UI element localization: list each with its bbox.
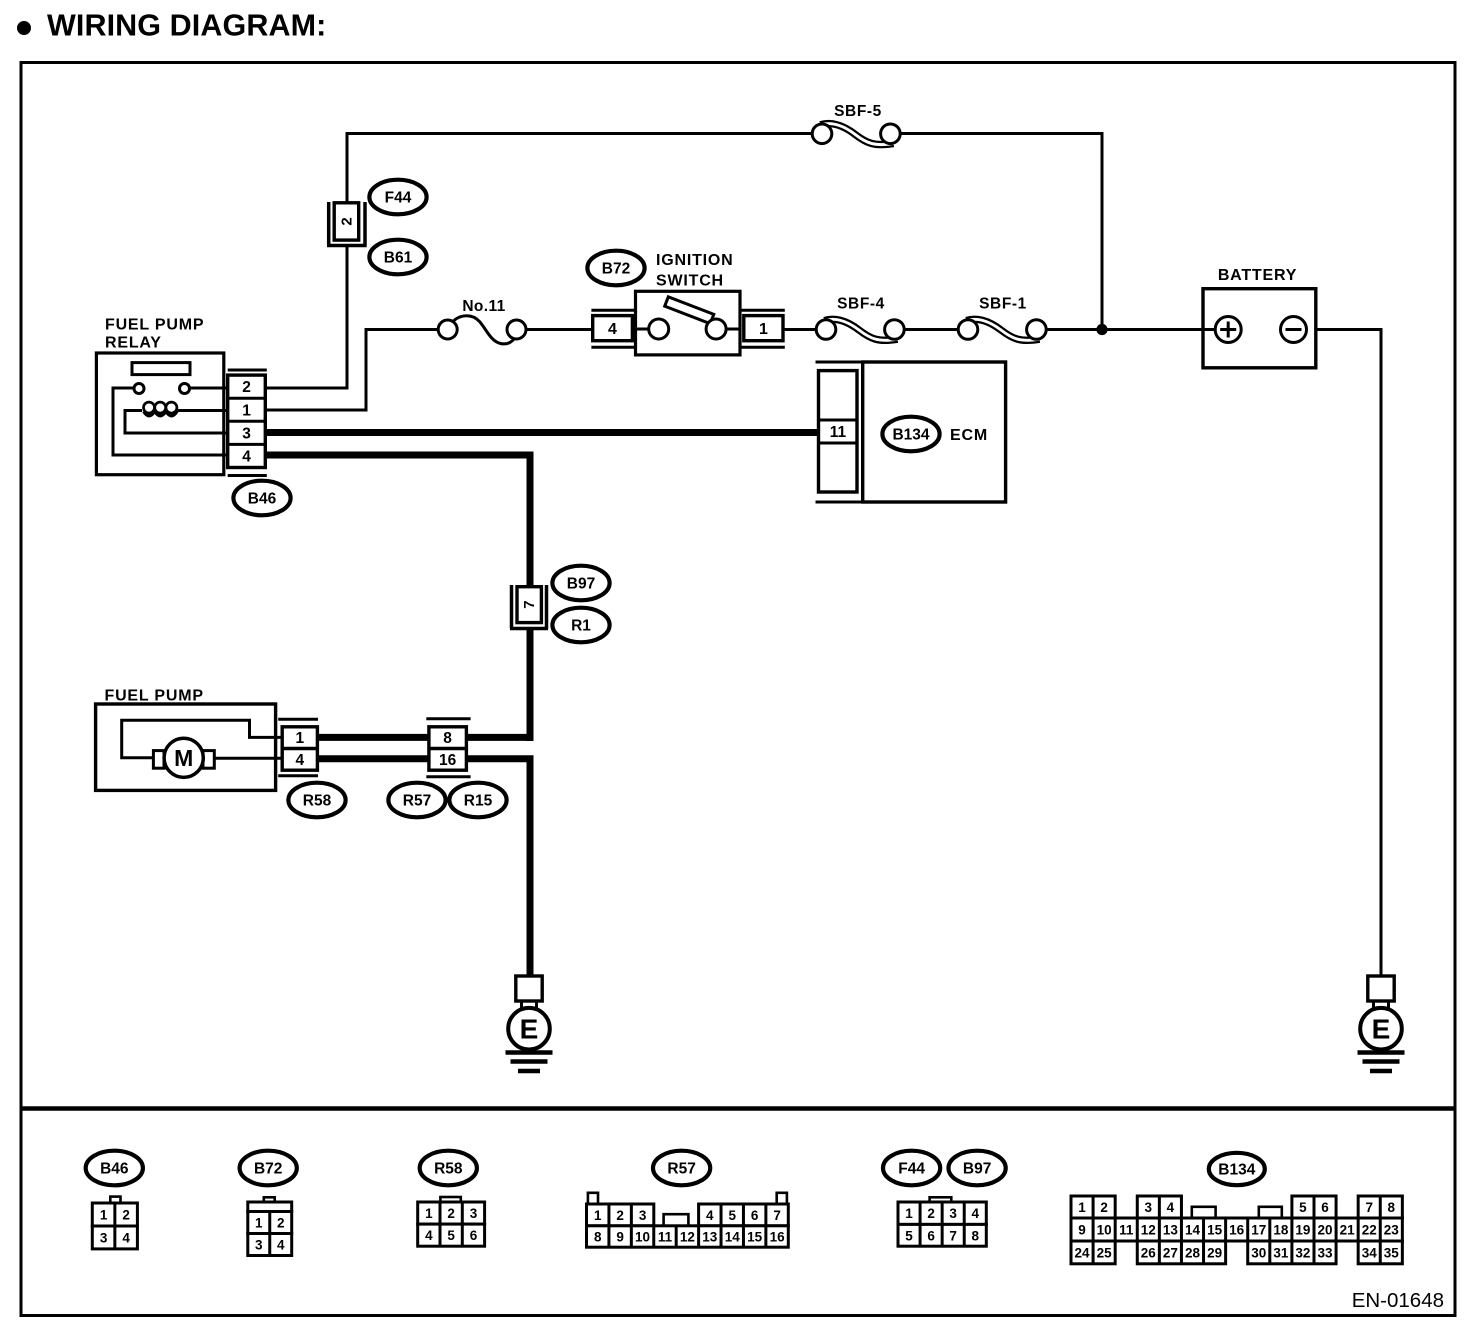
svg-text:R58: R58 bbox=[434, 1160, 463, 1177]
fuse SBF-5 bbox=[812, 124, 900, 145]
svg-text:15: 15 bbox=[747, 1230, 763, 1245]
svg-text:34: 34 bbox=[1362, 1245, 1378, 1260]
svg-text:WIRING DIAGRAM:: WIRING DIAGRAM: bbox=[47, 8, 326, 42]
svg-text:ECM: ECM bbox=[950, 427, 988, 444]
wire connector B97/R1 down to joint with pin 8 wire (thick) bbox=[527, 628, 534, 741]
svg-text:3: 3 bbox=[1145, 1200, 1153, 1215]
relay coil bbox=[125, 402, 228, 433]
svg-text:12: 12 bbox=[1141, 1223, 1156, 1238]
relay contact wiring bbox=[113, 388, 228, 455]
svg-text:4: 4 bbox=[425, 1228, 433, 1243]
svg-text:3: 3 bbox=[949, 1206, 957, 1221]
connector R57/R15 pins 8,16 bbox=[426, 719, 470, 777]
battery box bbox=[1203, 289, 1316, 368]
ignition switch B72 box bbox=[636, 291, 741, 355]
relay armature bar bbox=[132, 363, 190, 375]
svg-text:SBF-4: SBF-4 bbox=[837, 296, 885, 313]
connector label oval B134b bbox=[1209, 1153, 1265, 1185]
svg-text:21: 21 bbox=[1340, 1223, 1356, 1238]
svg-text:4: 4 bbox=[277, 1238, 285, 1253]
svg-text:B134: B134 bbox=[892, 426, 929, 443]
svg-text:31: 31 bbox=[1273, 1245, 1289, 1260]
wire SBF-1 to battery positive bbox=[1044, 328, 1218, 331]
svg-text:13: 13 bbox=[702, 1230, 718, 1245]
connector label oval B97b bbox=[949, 1151, 1006, 1186]
fuel pump internal wiring bbox=[122, 720, 284, 758]
svg-text:18: 18 bbox=[1273, 1223, 1289, 1238]
connector B46 pin column (pins 2,1,3,4) bbox=[228, 370, 267, 476]
ECM pin column with pin 11 bbox=[819, 371, 858, 492]
wire F44 connector to SBF-5 fuse (top run) bbox=[347, 134, 818, 204]
relay contact circles bbox=[134, 384, 190, 394]
svg-text:5: 5 bbox=[1299, 1200, 1307, 1215]
svg-text:30: 30 bbox=[1251, 1245, 1266, 1260]
svg-text:8: 8 bbox=[1388, 1200, 1396, 1215]
svg-text:1: 1 bbox=[905, 1206, 913, 1221]
fuse SBF-4 bbox=[816, 319, 904, 340]
connector label oval R57b bbox=[653, 1151, 710, 1186]
svg-text:4: 4 bbox=[972, 1206, 980, 1221]
svg-text:FUEL PUMP: FUEL PUMP bbox=[105, 688, 204, 705]
svg-text:7: 7 bbox=[949, 1228, 957, 1243]
svg-text:10: 10 bbox=[1097, 1223, 1112, 1238]
battery positive terminal bbox=[1215, 317, 1241, 343]
fuse SBF-1 bbox=[958, 319, 1046, 340]
svg-text:2: 2 bbox=[616, 1208, 624, 1223]
svg-text:R1: R1 bbox=[571, 617, 591, 634]
connector label oval B97 bbox=[552, 566, 609, 601]
connector label oval B46b bbox=[86, 1151, 143, 1186]
fuse No.11 bbox=[438, 316, 526, 344]
svg-text:5: 5 bbox=[728, 1208, 736, 1223]
connector label oval R58b bbox=[420, 1151, 477, 1186]
svg-text:2: 2 bbox=[338, 217, 355, 225]
connector label oval B72 bbox=[587, 251, 644, 286]
battery negative terminal bbox=[1281, 317, 1307, 343]
connector label oval B46 bbox=[233, 481, 290, 516]
svg-text:B134: B134 bbox=[1218, 1161, 1255, 1178]
svg-text:28: 28 bbox=[1185, 1245, 1201, 1260]
svg-text:1: 1 bbox=[594, 1208, 602, 1223]
svg-text:3: 3 bbox=[242, 425, 251, 442]
connector label oval B72b bbox=[240, 1151, 297, 1186]
wire fuel pump pin1 to connector pin 8 (thick) bbox=[317, 734, 430, 741]
svg-text:BATTERY: BATTERY bbox=[1218, 267, 1297, 284]
svg-text:3: 3 bbox=[255, 1238, 263, 1253]
svg-text:32: 32 bbox=[1295, 1245, 1310, 1260]
connector label oval B61 bbox=[369, 240, 426, 275]
svg-text:E: E bbox=[1372, 1014, 1391, 1045]
svg-text:No.11: No.11 bbox=[462, 298, 505, 315]
svg-text:SBF-5: SBF-5 bbox=[834, 103, 882, 120]
motor M bbox=[164, 738, 203, 777]
svg-text:6: 6 bbox=[927, 1228, 935, 1243]
svg-text:FUEL PUMP: FUEL PUMP bbox=[105, 316, 204, 333]
svg-text:11: 11 bbox=[830, 424, 847, 441]
svg-text:11: 11 bbox=[658, 1230, 673, 1245]
node junction dot SBF-5 / SBF-1 / battery bbox=[1096, 324, 1107, 335]
connector label oval F44 bbox=[369, 180, 426, 215]
svg-text:6: 6 bbox=[470, 1228, 478, 1243]
svg-text:B97: B97 bbox=[567, 575, 595, 592]
svg-text:3: 3 bbox=[639, 1208, 647, 1223]
svg-text:1: 1 bbox=[295, 730, 304, 747]
svg-text:23: 23 bbox=[1384, 1223, 1400, 1238]
svg-text:R57: R57 bbox=[403, 792, 431, 809]
connector label oval R15 bbox=[449, 783, 506, 818]
svg-text:5: 5 bbox=[905, 1228, 913, 1243]
connector R58 pins 1,4 bbox=[278, 719, 318, 775]
svg-text:26: 26 bbox=[1141, 1245, 1157, 1260]
svg-text:2: 2 bbox=[927, 1206, 935, 1221]
svg-text:14: 14 bbox=[1185, 1223, 1201, 1238]
svg-text:35: 35 bbox=[1384, 1245, 1400, 1260]
svg-text:9: 9 bbox=[1078, 1223, 1086, 1238]
svg-text:17: 17 bbox=[1251, 1223, 1266, 1238]
svg-text:6: 6 bbox=[751, 1208, 759, 1223]
wire relay pin4 down to connector B97/R1 (thick) bbox=[265, 455, 530, 588]
svg-text:F44: F44 bbox=[898, 1160, 925, 1177]
wire SBF-4 to SBF-1 bbox=[902, 328, 960, 331]
svg-text:E: E bbox=[520, 1014, 539, 1045]
svg-text:B72: B72 bbox=[602, 260, 630, 277]
motor terminal tabs bbox=[153, 751, 214, 769]
svg-text:B46: B46 bbox=[100, 1160, 129, 1177]
connector B97/R1 inline, pin 7 bbox=[510, 585, 548, 629]
wire ignition switch pin 1 to SBF-4 fuse bbox=[783, 328, 818, 331]
svg-text:F44: F44 bbox=[385, 189, 412, 206]
svg-text:R57: R57 bbox=[667, 1160, 695, 1177]
wire relay pin2 to fuse F44 riser and SBF-5 line bbox=[265, 247, 347, 388]
connector label oval R1 bbox=[552, 608, 609, 643]
svg-text:14: 14 bbox=[725, 1230, 741, 1245]
connector label oval B134e bbox=[882, 417, 939, 452]
svg-text:8: 8 bbox=[972, 1228, 980, 1243]
ignition switch pin 1 bbox=[740, 310, 785, 347]
label IGNITION SWITCH bbox=[656, 252, 734, 290]
svg-text:1: 1 bbox=[425, 1206, 433, 1221]
svg-text:2: 2 bbox=[1100, 1200, 1108, 1215]
svg-text:4: 4 bbox=[608, 321, 617, 338]
wire relay pin1 riser to No.11 fuse bbox=[265, 330, 440, 411]
ignition switch pin 4 bbox=[591, 310, 635, 347]
connector label oval F44b bbox=[883, 1151, 940, 1186]
separator line bbox=[22, 1106, 1454, 1111]
svg-text:33: 33 bbox=[1318, 1245, 1334, 1260]
svg-text:R58: R58 bbox=[303, 792, 332, 809]
wire battery negative to right ground bbox=[1305, 330, 1381, 980]
svg-text:9: 9 bbox=[616, 1230, 624, 1245]
svg-text:16: 16 bbox=[439, 752, 457, 769]
ignition switch lever bbox=[665, 297, 714, 324]
svg-text:2: 2 bbox=[447, 1206, 455, 1221]
wire No.11 fuse to ignition switch pin 4 bbox=[524, 328, 593, 331]
svg-text:5: 5 bbox=[447, 1228, 455, 1243]
svg-text:25: 25 bbox=[1097, 1245, 1113, 1260]
svg-text:13: 13 bbox=[1163, 1223, 1179, 1238]
svg-text:M: M bbox=[174, 745, 193, 771]
svg-text:1: 1 bbox=[1078, 1200, 1086, 1215]
svg-text:16: 16 bbox=[1229, 1223, 1245, 1238]
wire fuel pump pin4 to connector pin 16 (thick) bbox=[317, 755, 430, 762]
svg-text:12: 12 bbox=[680, 1230, 695, 1245]
svg-text:6: 6 bbox=[1321, 1200, 1329, 1215]
svg-text:2: 2 bbox=[242, 379, 251, 396]
label FUEL PUMP RELAY bbox=[105, 316, 204, 351]
svg-text:RELAY: RELAY bbox=[105, 335, 162, 352]
svg-text:B61: B61 bbox=[384, 249, 413, 266]
svg-text:8: 8 bbox=[443, 730, 452, 747]
svg-text:B97: B97 bbox=[963, 1160, 991, 1177]
svg-text:SWITCH: SWITCH bbox=[656, 273, 724, 290]
svg-text:7: 7 bbox=[1365, 1200, 1373, 1215]
fuel pump box bbox=[96, 704, 276, 790]
svg-text:B72: B72 bbox=[254, 1160, 282, 1177]
svg-text:B46: B46 bbox=[248, 490, 277, 507]
ground E right (battery) bbox=[1358, 976, 1405, 1071]
svg-text:4: 4 bbox=[242, 449, 251, 466]
svg-text:SBF-1: SBF-1 bbox=[979, 296, 1027, 313]
svg-text:4: 4 bbox=[295, 752, 304, 769]
connector label oval R57 bbox=[388, 783, 445, 818]
ignition switch contact circles bbox=[649, 319, 726, 339]
wire relay pin3 to ECM pin 11 (thick) bbox=[265, 429, 822, 436]
wire connector pin 16 to left ground (thick) bbox=[465, 756, 534, 980]
svg-text:27: 27 bbox=[1163, 1245, 1178, 1260]
svg-text:1: 1 bbox=[242, 402, 251, 419]
svg-text:4: 4 bbox=[706, 1208, 714, 1223]
svg-text:11: 11 bbox=[1119, 1223, 1134, 1238]
svg-text:15: 15 bbox=[1207, 1223, 1223, 1238]
svg-text:22: 22 bbox=[1362, 1223, 1377, 1238]
svg-text:1: 1 bbox=[255, 1216, 263, 1231]
op ECM box B134 bbox=[816, 362, 1006, 502]
svg-text:29: 29 bbox=[1207, 1245, 1222, 1260]
svg-text:IGNITION: IGNITION bbox=[656, 252, 734, 269]
title bullet bbox=[17, 21, 31, 35]
wire connector pin 8 to vertical joint (thick) bbox=[465, 734, 534, 741]
svg-text:1: 1 bbox=[759, 321, 768, 338]
fuel pump relay box bbox=[96, 353, 223, 475]
svg-text:1: 1 bbox=[100, 1208, 108, 1223]
svg-text:7: 7 bbox=[773, 1208, 781, 1223]
svg-text:4: 4 bbox=[122, 1230, 130, 1245]
svg-text:24: 24 bbox=[1075, 1245, 1091, 1260]
connector label oval R58 bbox=[288, 783, 345, 818]
svg-text:16: 16 bbox=[770, 1230, 786, 1245]
svg-text:3: 3 bbox=[470, 1206, 478, 1221]
svg-text:8: 8 bbox=[594, 1230, 602, 1245]
svg-text:R15: R15 bbox=[464, 792, 493, 809]
svg-text:3: 3 bbox=[100, 1230, 108, 1245]
svg-text:19: 19 bbox=[1295, 1223, 1310, 1238]
wire SBF-5 fuse to junction, down to main line bbox=[894, 134, 1102, 330]
svg-text:20: 20 bbox=[1318, 1223, 1333, 1238]
svg-text:2: 2 bbox=[122, 1208, 130, 1223]
svg-text:2: 2 bbox=[277, 1216, 285, 1231]
svg-text:10: 10 bbox=[635, 1230, 650, 1245]
svg-text:EN-01648: EN-01648 bbox=[1352, 1289, 1444, 1312]
svg-text:7: 7 bbox=[521, 600, 538, 608]
ground E left (fuel pump circuit) bbox=[506, 976, 553, 1071]
svg-text:4: 4 bbox=[1167, 1200, 1175, 1215]
connector F44/B61 inline, pin 2 bbox=[327, 202, 367, 246]
